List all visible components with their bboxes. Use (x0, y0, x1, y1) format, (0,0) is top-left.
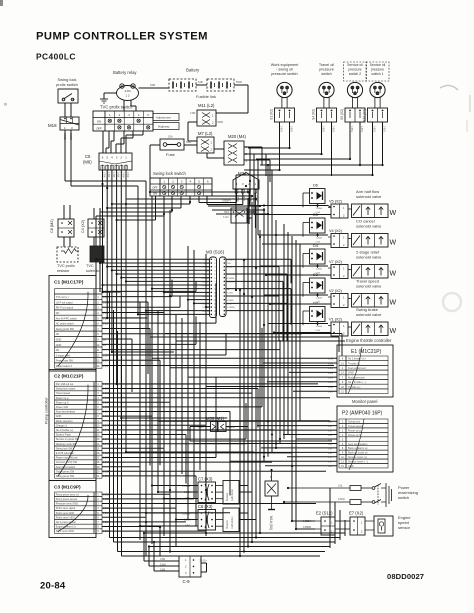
wire V2 (X2) to valve (348, 298, 352, 300)
swing lock switch (150, 178, 212, 196)
wires C1 rows to right (102, 291, 334, 365)
wire fuse to M7 (184, 141, 197, 145)
pressure switch S4 (312, 63, 337, 122)
pressure switch S10 (363, 62, 390, 122)
svg-text:- swing oil: - swing oil (276, 68, 293, 72)
monitor panel label (352, 399, 377, 404)
svg-text:Service meter ( - ): Service meter ( - ) (348, 461, 368, 464)
corner speck (0, 0, 3, 6)
svg-text:resistor: resistor (57, 269, 70, 273)
wires to E1 rows (152, 358, 337, 391)
svg-text:NC: NC (56, 349, 60, 352)
svg-text:M3 (S16): M3 (S16) (206, 250, 225, 255)
svg-text:Auto deceleration: Auto deceleration (56, 411, 76, 414)
svg-text:Auto decel switch: Auto decel switch (56, 466, 76, 469)
svg-text:PC400LC: PC400LC (36, 52, 76, 62)
svg-text:S9 (X2): S9 (X2) (340, 109, 344, 120)
pressure switch S1 label+symbol (270, 63, 300, 122)
wire bus C5 turns (103, 292, 255, 452)
diode D5 wire labels (316, 237, 323, 244)
svg-text:TVC sol (+): TVC sol (+) (56, 296, 69, 299)
svg-text:C5: C5 (85, 154, 91, 159)
svg-text:Resistor: Resistor (226, 520, 229, 529)
wires bus to E2 (291, 426, 315, 530)
svg-text:D4: D4 (313, 244, 318, 248)
wires into M3 left (95, 258, 210, 315)
svg-text:M11 (L2): M11 (L2) (198, 103, 215, 108)
svg-text:Power shift: Power shift (56, 406, 69, 409)
svg-text:0.5Y: 0.5Y (328, 457, 333, 459)
wire bus C5 down (103, 184, 127, 452)
svg-text:0.5R: 0.5R (103, 355, 108, 357)
svg-text:Power max SW pwr: Power max SW pwr (56, 457, 78, 460)
C9 jumper loop (201, 563, 207, 572)
wire relay to battery (139, 83, 170, 88)
connector C6 (58, 219, 74, 237)
swing lock prolix switch label (56, 77, 78, 87)
engine speed sensor label (398, 515, 411, 530)
left margin scan mark (4, 103, 7, 106)
svg-text:C1 (M1C17P): C1 (M1C17P) (54, 280, 84, 286)
connector M11 (190, 110, 223, 126)
C4 label (81, 219, 85, 233)
svg-text:System F/psn: System F/psn (56, 434, 72, 437)
svg-text:(with diode): (with diode) (231, 516, 234, 528)
wire S4 drops (322, 122, 332, 176)
svg-text:NC prolix switch: NC prolix switch (56, 323, 75, 326)
wire feed V4 (258, 234, 331, 244)
svg-text:W: W (390, 328, 397, 335)
solenoid valve V4 (X2) (352, 234, 397, 248)
wires C6 to resistor (64, 237, 70, 247)
power maximizing switch (283, 483, 392, 507)
battery 2 (207, 79, 234, 91)
wires M3 right turns (279, 259, 291, 341)
svg-text:switch 1: switch 1 (371, 72, 383, 76)
svg-text:0.85R: 0.85R (103, 302, 109, 304)
svg-text:Swing lock output: Swing lock output (56, 388, 76, 391)
wires C5 down (103, 170, 127, 204)
wires relay to TVC (124, 101, 136, 112)
svg-text:pressure: pressure (371, 68, 384, 72)
TVC prolix switch (93, 111, 179, 131)
wire M20 right exits (244, 147, 270, 182)
wires C3 turns (146, 485, 206, 556)
svg-text:0.5GC: 0.5GC (227, 292, 234, 294)
svg-text:0.85RB: 0.85RB (227, 278, 235, 280)
svg-text:W: W (390, 210, 397, 217)
connector C4 (88, 219, 104, 237)
wire battery 2 to M11 (216, 80, 248, 113)
svg-text:E1 (M1C21P): E1 (M1C21P) (351, 349, 382, 355)
svg-text:Swing lock switch: Swing lock switch (153, 171, 186, 176)
wires M34 down (237, 193, 256, 228)
svg-text:2-stage relief: 2-stage relief (56, 354, 71, 357)
svg-text:0.5Y: 0.5Y (328, 439, 333, 441)
svg-text:Service oil: Service oil (347, 63, 363, 67)
pressure switch bus y170 (244, 169, 281, 171)
monitor panel P2 (AMP040 16P) (328, 406, 393, 472)
valve V4 (X2) label (356, 219, 382, 229)
connector M34 (233, 173, 259, 194)
svg-text:Charge (-): Charge (-) (56, 424, 68, 427)
M20 label (228, 134, 247, 139)
svg-text:RH P sol output: RH P sol output (56, 307, 74, 310)
svg-text:Pump press sens (+): Pump press sens (+) (56, 493, 79, 496)
svg-text:P2 (AMP040 16P): P2 (AMP040 16P) (342, 411, 383, 417)
svg-text:Back-up mode ch: Back-up mode ch (348, 452, 368, 455)
connector V5 (X2) (328, 200, 348, 219)
TVC prolix resistor label (57, 264, 75, 273)
C5 wire labels (103, 172, 129, 178)
svg-text:M18: M18 (48, 123, 57, 128)
svg-text:0.5Y: 0.5Y (103, 361, 108, 363)
svg-text:S10 (X2): S10 (X2) (363, 109, 367, 122)
svg-text:NC: NC (56, 333, 60, 336)
svg-text:No 2 throttle (+): No 2 throttle (+) (348, 358, 366, 361)
fuse F1 (160, 135, 184, 158)
svg-text:M7 (L2): M7 (L2) (198, 131, 213, 136)
svg-text:pressure switch: pressure switch (271, 72, 297, 76)
diode D4 wire labels (316, 268, 323, 275)
svg-text:pressure: pressure (348, 68, 361, 72)
svg-text:2.5R: 2.5R (190, 112, 195, 115)
wires out of M3 right (226, 259, 291, 310)
svg-text:2B: 2B (103, 345, 106, 347)
svg-text:C6 (M2): C6 (M2) (50, 219, 54, 233)
wire feed V1 (268, 322, 331, 333)
svg-text:5WR: 5WR (186, 141, 192, 144)
right margin scan artifact (440, 85, 470, 132)
svg-text:ON: ON (97, 120, 101, 124)
pressure switch bus y175 (236, 174, 374, 176)
svg-text:Mode selection: Mode selection (56, 420, 73, 423)
battery relay label (113, 70, 137, 75)
valve V1 (X2) label (356, 307, 382, 317)
svg-text:S4 (X2): S4 (X2) (312, 109, 316, 120)
svg-text:C3 (M1C9P): C3 (M1C9P) (54, 485, 81, 491)
svg-text:TVC prolix switch: TVC prolix switch (100, 105, 133, 110)
valve V7 (X2) label (356, 250, 382, 260)
svg-text:0.5Y: 0.5Y (328, 431, 333, 433)
ground for battery relay (100, 93, 117, 103)
junction under C5 (101, 183, 103, 185)
svg-text:10A: 10A (168, 135, 173, 139)
pressure switch bus y154 (252, 153, 323, 155)
wires upper middle zone (126, 192, 268, 214)
connector C-9 (160, 556, 207, 584)
solenoid valve V1 (X2) (352, 322, 397, 336)
svg-text:Power up S: Power up S (56, 401, 69, 404)
svg-text:W: W (390, 271, 397, 278)
svg-text:switch 2: switch 2 (349, 72, 361, 76)
svg-text:1.4GA: 1.4GA (316, 297, 323, 300)
wires C2 rows to right (102, 384, 330, 476)
connector C3 (M1C9P) (49, 481, 111, 538)
diode D3 wire labels (316, 297, 323, 304)
diode D4 (303, 244, 325, 268)
svg-text:Arm IN PPC switch: Arm IN PPC switch (56, 317, 78, 320)
svg-text:Service oil: Service oil (370, 63, 386, 67)
svg-text:V4 (X2): V4 (X2) (329, 229, 343, 233)
svg-text:E2 (S12): E2 (S12) (316, 511, 333, 516)
svg-text:Prolix sens signal: Prolix sens signal (56, 507, 76, 510)
diode D6 wire labels (316, 207, 323, 214)
svg-text:1.4GA: 1.4GA (316, 325, 323, 328)
wire feed V7 (260, 265, 331, 276)
svg-text:C2 (M1C21P): C2 (M1C21P) (54, 374, 84, 380)
svg-text:1 2: 1 2 (126, 94, 130, 98)
wire V4 (X2) to valve (348, 238, 352, 240)
svg-text:pressure: pressure (319, 68, 334, 72)
svg-text:Work equipment: Work equipment (271, 63, 300, 67)
battery 1 (169, 79, 196, 91)
svg-text:sensor: sensor (398, 525, 411, 530)
wires C1 rows turn down (132, 280, 226, 466)
svg-text:Battery: Battery (186, 68, 200, 73)
svg-text:solenoid valve: solenoid valve (356, 194, 382, 199)
wire M18 to bus (65, 181, 146, 314)
svg-text:Swing prolix SW: Swing prolix SW (56, 328, 75, 331)
engine throttle controller E1 (M1C21P) (328, 345, 393, 397)
TVC solenoid label (86, 264, 100, 273)
svg-text:1.4GA: 1.4GA (316, 237, 323, 240)
wires swing lock switch down (96, 196, 207, 292)
junctions C7 C8 (139, 484, 177, 527)
svg-text:20-84: 20-84 (40, 581, 66, 592)
svg-text:Power max SW: Power max SW (56, 360, 74, 363)
connector M14 (265, 470, 278, 510)
svg-text:C4 (X2): C4 (X2) (81, 219, 85, 233)
TVC solenoid (90, 246, 104, 262)
svg-text:Back-up alarm up: Back-up alarm up (348, 447, 368, 450)
battery label (186, 68, 200, 73)
svg-text:V1 (X2): V1 (X2) (329, 318, 343, 322)
wire V1 (X2) to valve (348, 326, 352, 328)
svg-text:GND: GND (56, 339, 62, 342)
svg-text:0.5L: 0.5L (338, 485, 343, 488)
valve V2 (X2) label (356, 279, 382, 289)
svg-text:0.5Y: 0.5Y (328, 448, 333, 450)
E2 label (316, 511, 333, 516)
diode D6 (303, 184, 325, 208)
svg-text:Working mode SW: Working mode SW (56, 443, 77, 446)
svg-text:GND: GND (56, 415, 62, 418)
svg-text:solenoid valve: solenoid valve (356, 312, 382, 317)
swing lock prolix switch S (58, 89, 78, 103)
svg-text:LH P sol output: LH P sol output (56, 301, 73, 304)
M34 label (238, 171, 247, 176)
svg-text:solenoid: solenoid (86, 269, 100, 273)
pressure switch wire labels (280, 126, 385, 132)
svg-text:0.5Y: 0.5Y (328, 422, 333, 424)
connector C2 (M1C21P) (49, 370, 111, 481)
wires C6 C4 up (64, 205, 100, 219)
svg-text:Monitor panel: Monitor panel (352, 399, 377, 404)
wire feed V5 (250, 204, 331, 214)
connector M7 (197, 137, 214, 153)
svg-text:C-9: C-9 (182, 579, 190, 584)
svg-text:(M6): (M6) (83, 160, 92, 165)
svg-text:1.25WB: 1.25WB (227, 307, 235, 309)
svg-text:No 2 throttle (+): No 2 throttle (+) (56, 429, 74, 432)
central wire bus (240, 198, 300, 556)
wire fuse left (150, 145, 160, 192)
svg-text:Mode selection: Mode selection (348, 376, 365, 379)
wires TVC down to C5 (103, 131, 143, 153)
svg-text:0.5G: 0.5G (316, 330, 321, 332)
svg-text:Prolix sens (+5V): Prolix sens (+5V) (56, 516, 75, 519)
solenoid valve V5 (X2) (352, 204, 397, 218)
wires M36 (190, 427, 332, 442)
svg-text:2B: 2B (103, 340, 106, 342)
wire switch to M18 (65, 103, 71, 117)
svg-text:5WR: 5WR (218, 121, 224, 124)
connector M20 (224, 141, 248, 165)
wires to P2 rows (158, 421, 337, 466)
M7 label (198, 131, 213, 136)
svg-text:TVC: TVC (86, 264, 94, 268)
wires table-edge verticals (110, 292, 122, 556)
pressure switch S9 (340, 62, 367, 122)
svg-text:0.5W: 0.5W (103, 324, 109, 326)
svg-text:(with diode): (with diode) (231, 489, 234, 501)
connector C1 (M1C17P) (49, 276, 110, 372)
svg-text:61B: 61B (198, 80, 203, 84)
left-middle vertical bus (140, 196, 206, 556)
M36 label (206, 416, 225, 421)
C5 label (83, 154, 92, 165)
svg-text:4-84: 4-84 (124, 89, 130, 93)
svg-text:solenoid valve: solenoid valve (356, 284, 382, 289)
svg-text:Service meter (+): Service meter (+) (348, 456, 367, 459)
svg-text:switch: switch (398, 495, 409, 500)
wire M11 to M7 (188, 122, 197, 141)
svg-text:M20 (M4): M20 (M4) (228, 134, 247, 139)
connector V1 (X2) (328, 318, 348, 337)
bottom risers (325, 488, 345, 552)
connector E7 (350, 517, 365, 535)
solenoid valve V2 (X2) (352, 294, 397, 308)
wire V5 (X2) to valve (348, 208, 352, 210)
E7 label (349, 511, 364, 516)
svg-text:NC: NC (56, 312, 60, 315)
wire labels under M18 (63, 133, 73, 140)
wire M7 to M20 bus (207, 149, 224, 158)
drawing number 08DD0027 (387, 572, 424, 581)
wire between batteries (196, 80, 207, 85)
pressure switch bus y148 (248, 147, 291, 149)
svg-text:GND: GND (56, 344, 62, 347)
svg-text:M14 (SII): M14 (SII) (269, 516, 273, 530)
svg-text:Swing lock SW: Swing lock SW (56, 447, 73, 450)
wire S9 drops (350, 122, 360, 165)
connector V7 (X2) (328, 260, 348, 279)
svg-text:Battery relay: Battery relay (113, 70, 137, 75)
M11 label (198, 103, 215, 108)
svg-text:W: W (390, 300, 397, 307)
svg-text:V2 (X2): V2 (X2) (329, 289, 343, 293)
wire S1 drops (280, 122, 290, 170)
connector M3 (S16) (201, 257, 235, 318)
fusible link label (196, 94, 216, 99)
wires M34 left (199, 199, 243, 205)
connector C5 (99, 153, 132, 170)
svg-text:Service on press SW: Service on press SW (56, 438, 80, 441)
right margin scan smudge (443, 293, 461, 311)
svg-text:Adjustment: Adjustment (156, 115, 171, 119)
svg-text:61B: 61B (150, 83, 155, 87)
svg-text:Power up S: Power up S (348, 434, 361, 437)
svg-text:0.5Y: 0.5Y (328, 435, 333, 437)
connector V4 (X2) (328, 229, 348, 248)
wires E2 to E7 (335, 521, 350, 529)
diode D3 (303, 273, 325, 297)
svg-text:V5 (X2): V5 (X2) (329, 200, 343, 204)
wires C2 rows turn (140, 328, 262, 526)
wire M18 down-left (65, 130, 71, 186)
svg-text:Fuse: Fuse (166, 152, 176, 157)
wire S10 drops (373, 122, 383, 175)
svg-text:Power up g: Power up g (56, 397, 69, 400)
svg-text:Throttle (+): Throttle (+) (348, 386, 360, 389)
svg-text:Travel speed: Travel speed (348, 425, 363, 428)
TVC prolix switch label (100, 105, 133, 110)
M14 label (269, 516, 273, 530)
svg-text:0.85Y: 0.85Y (103, 297, 109, 299)
svg-text:0.5Y: 0.5Y (328, 462, 333, 464)
connector E2 (303, 517, 335, 535)
swing lock switch label (153, 171, 186, 176)
bottom wire runs (110, 533, 346, 556)
wires to C7 C8 (140, 486, 256, 527)
svg-text:No 2 throttle ( - ): No 2 throttle ( - ) (348, 381, 366, 384)
svg-text:OFF: OFF (96, 126, 102, 130)
wire V7 (X2) to valve (348, 269, 352, 271)
svg-text:PUMP CONTROLLER SYSTEM: PUMP CONTROLLER SYSTEM (36, 31, 208, 43)
valve V5 (X2) label (356, 189, 382, 199)
svg-text:OFF: OFF (152, 186, 158, 190)
wires C4 to solenoid (94, 237, 100, 246)
pressure switch bus y159 (256, 158, 351, 160)
svg-text:E7 (X2): E7 (X2) (349, 511, 364, 516)
svg-text:No 2 press sensor: No 2 press sensor (56, 521, 76, 524)
pump controller label (45, 397, 49, 424)
wires over E1 (150, 334, 345, 357)
power maximizing switch label (398, 485, 418, 500)
svg-text:0.5Y: 0.5Y (328, 466, 333, 468)
TVC prolix resistor (57, 247, 79, 262)
svg-text:5WR: 5WR (236, 80, 242, 84)
wires into C9 (143, 532, 179, 571)
svg-text:Travel oil: Travel oil (319, 63, 334, 67)
svg-text:Power up g: Power up g (348, 429, 361, 432)
svg-text:Highway: Highway (158, 124, 170, 128)
M18 label (48, 123, 57, 128)
subtitle PC400LC (36, 52, 76, 62)
svg-text:08DD0027: 08DD0027 (387, 572, 424, 581)
title PUMP CONTROLLER SYSTEM (36, 31, 208, 43)
connector C8 (X3) with resistor (182, 504, 239, 532)
M3 label (206, 250, 225, 255)
svg-text:0.5Y: 0.5Y (328, 444, 333, 446)
pressure switch bus y165 (260, 164, 384, 166)
C6 label (50, 219, 54, 233)
connector M36 (198, 422, 235, 432)
page number 20-84 (40, 581, 66, 592)
svg-text:1.4GA: 1.4GA (316, 268, 323, 271)
svg-text:solenoid valve: solenoid valve (356, 255, 382, 260)
